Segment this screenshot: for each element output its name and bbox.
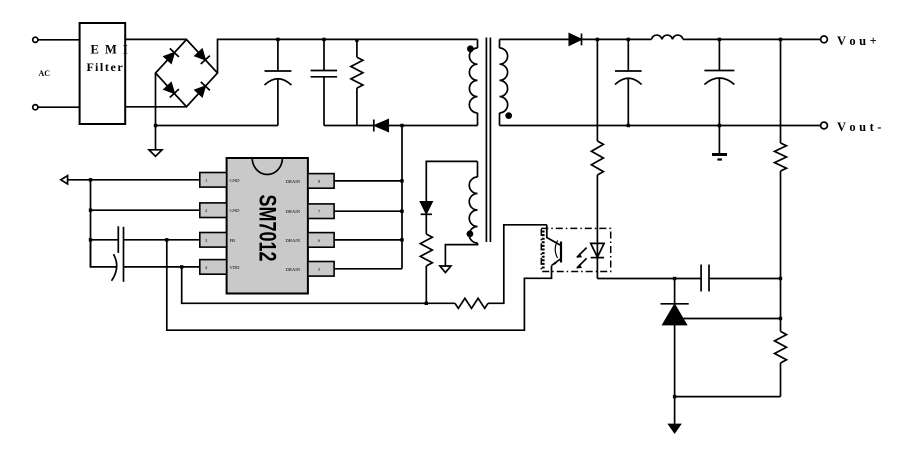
capacitor C3 FB bbox=[118, 226, 123, 281]
EMI filter FL1 bbox=[80, 23, 126, 124]
junction bbox=[627, 38, 630, 41]
wire bbox=[38, 106, 79, 108]
aux winding bbox=[477, 161, 479, 177]
wire pin1 bbox=[68, 179, 200, 181]
junction bbox=[425, 302, 428, 305]
diode D7 output bbox=[569, 34, 581, 46]
wire FB return bbox=[167, 240, 552, 330]
junction drain node bbox=[400, 124, 403, 127]
svg-text:FB: FB bbox=[230, 238, 236, 243]
junction bbox=[596, 38, 599, 41]
ground arrow secondary bbox=[669, 425, 680, 433]
polarity dot aux bbox=[467, 231, 474, 238]
wire pin2 bbox=[91, 209, 200, 211]
svg-text:VDD: VDD bbox=[230, 265, 241, 270]
ground aux bbox=[440, 266, 451, 273]
wire ref line bbox=[679, 318, 781, 320]
polarity dot primary bbox=[467, 45, 474, 52]
resistor R3 opto series bbox=[455, 298, 488, 308]
pin 4 bbox=[200, 260, 227, 275]
wire secondary top bbox=[500, 38, 570, 40]
LED in opto bbox=[591, 243, 604, 257]
pin 7 bbox=[308, 204, 334, 219]
wire pin6 bbox=[334, 239, 402, 241]
svg-text:V o u t -: V o u t - bbox=[837, 120, 882, 134]
wire bbox=[38, 39, 79, 41]
junction bbox=[779, 38, 782, 41]
resistor R5 divider top bbox=[775, 39, 787, 278]
junction bbox=[673, 277, 676, 280]
svg-text:GND: GND bbox=[230, 208, 241, 213]
transformer T1 bbox=[440, 38, 512, 273]
secondary winding bbox=[499, 39, 501, 48]
wire bbox=[582, 38, 652, 40]
svg-text:SM7012: SM7012 bbox=[254, 195, 281, 262]
wire divider bottom to TL431 anode bbox=[675, 396, 781, 398]
wire pin3 left bbox=[91, 239, 119, 241]
junction bbox=[89, 238, 92, 241]
wire pin7 bbox=[334, 210, 402, 212]
ground primary bbox=[149, 150, 162, 157]
svg-text:AC: AC bbox=[39, 69, 51, 78]
ground output bbox=[712, 155, 727, 160]
junction bbox=[276, 38, 279, 41]
resistor R4 LED series bbox=[591, 39, 603, 278]
svg-text:DRAIN: DRAIN bbox=[286, 209, 301, 214]
junction bbox=[89, 209, 92, 212]
capacitor C7 comp bbox=[701, 265, 709, 292]
capacitor C1 bulk bbox=[265, 39, 292, 125]
resistor R2 aux bbox=[420, 214, 432, 303]
junction bbox=[89, 178, 92, 181]
diode D6 aux bbox=[421, 202, 432, 215]
junction bbox=[718, 124, 721, 127]
wire to opto collector bbox=[488, 225, 547, 303]
wire pin5 bbox=[334, 268, 402, 270]
core bbox=[485, 38, 487, 243]
junction bbox=[400, 238, 403, 241]
wire pin8 bbox=[334, 180, 402, 182]
terminal Vou+ bbox=[821, 36, 828, 43]
wire opto LED to divider bbox=[597, 278, 701, 280]
junction bbox=[400, 179, 403, 182]
wire aux bottom bbox=[445, 243, 477, 266]
pin 6 bbox=[308, 233, 334, 248]
wire bbox=[683, 38, 821, 40]
junction bbox=[627, 124, 630, 127]
junction bbox=[779, 317, 782, 320]
wire clamp rail bbox=[324, 125, 374, 127]
pin 2 bbox=[200, 203, 227, 218]
wire top rail primary bbox=[278, 38, 478, 40]
svg-text:DRAIN: DRAIN bbox=[286, 267, 301, 272]
wire EMI to bridge top bbox=[125, 38, 186, 40]
polarity dot secondary bbox=[505, 112, 512, 119]
pin 5 bbox=[308, 262, 334, 277]
wire bus corner to C4 bbox=[91, 240, 117, 267]
junction bbox=[154, 124, 157, 127]
pin 3 bbox=[200, 233, 227, 248]
wire bridge minus down bbox=[155, 73, 157, 150]
wire pin3 right bbox=[124, 239, 200, 241]
capacitor C2 clamp bbox=[311, 39, 338, 125]
svg-text:F i l t e r: F i l t e r bbox=[87, 60, 124, 74]
junction bbox=[718, 38, 721, 41]
capacitor C6 output bbox=[704, 39, 734, 154]
inductor L1 bbox=[652, 35, 684, 39]
junction bbox=[355, 39, 358, 42]
shunt regulator U3 TL431 bbox=[661, 279, 689, 425]
junction FB node bbox=[165, 238, 168, 241]
junction bbox=[673, 395, 676, 398]
svg-text:DRAIN: DRAIN bbox=[286, 238, 301, 243]
wire bbox=[388, 125, 477, 127]
junction VDD node bbox=[180, 265, 183, 268]
svg-text:E M I: E M I bbox=[91, 43, 130, 57]
terminal Vout- bbox=[821, 122, 828, 129]
wire bridge plus riser bbox=[218, 39, 278, 73]
resistor R1 clamp bbox=[351, 39, 363, 125]
pin 1 bbox=[200, 173, 227, 188]
wire drain bus bbox=[401, 126, 403, 269]
phototransistor bbox=[547, 225, 561, 246]
diode D1 bbox=[163, 48, 179, 64]
wire bbox=[709, 278, 781, 280]
capacitor C4 VDD bbox=[112, 254, 117, 281]
optocoupler U2 bbox=[541, 225, 610, 272]
diode D5 clamp bbox=[374, 120, 388, 132]
wire EMI to bridge bottom bbox=[125, 106, 186, 108]
terminal AC neutral bbox=[33, 105, 38, 110]
diode D4 bbox=[194, 82, 210, 98]
capacitor C5 output bbox=[615, 39, 642, 125]
wire pin4 bbox=[124, 266, 200, 268]
terminal AC line bbox=[33, 37, 38, 42]
bridge rectifier BR1 bbox=[156, 40, 218, 107]
junction bbox=[322, 38, 325, 41]
wire return rail bbox=[156, 125, 278, 127]
svg-text:V o u +: V o u + bbox=[837, 34, 877, 48]
wire aux top to rectifier bbox=[426, 161, 477, 201]
svg-text:DRAIN: DRAIN bbox=[286, 179, 301, 184]
wire Vout- rail bbox=[500, 125, 821, 127]
diode D2 bbox=[194, 48, 210, 64]
pin 8 bbox=[308, 174, 334, 189]
wire VDD feed bbox=[182, 267, 455, 303]
IC U1 SM7012 bbox=[200, 158, 334, 294]
resistor R6 divider bottom bbox=[775, 279, 787, 397]
primary winding bbox=[477, 39, 479, 48]
junction bbox=[400, 210, 403, 213]
diode D3 bbox=[163, 82, 179, 98]
wire left bus bbox=[90, 180, 92, 267]
node arrow primary return bbox=[61, 176, 68, 184]
svg-text:GND: GND bbox=[230, 178, 241, 183]
light arrows bbox=[577, 248, 587, 258]
junction bbox=[779, 277, 782, 280]
